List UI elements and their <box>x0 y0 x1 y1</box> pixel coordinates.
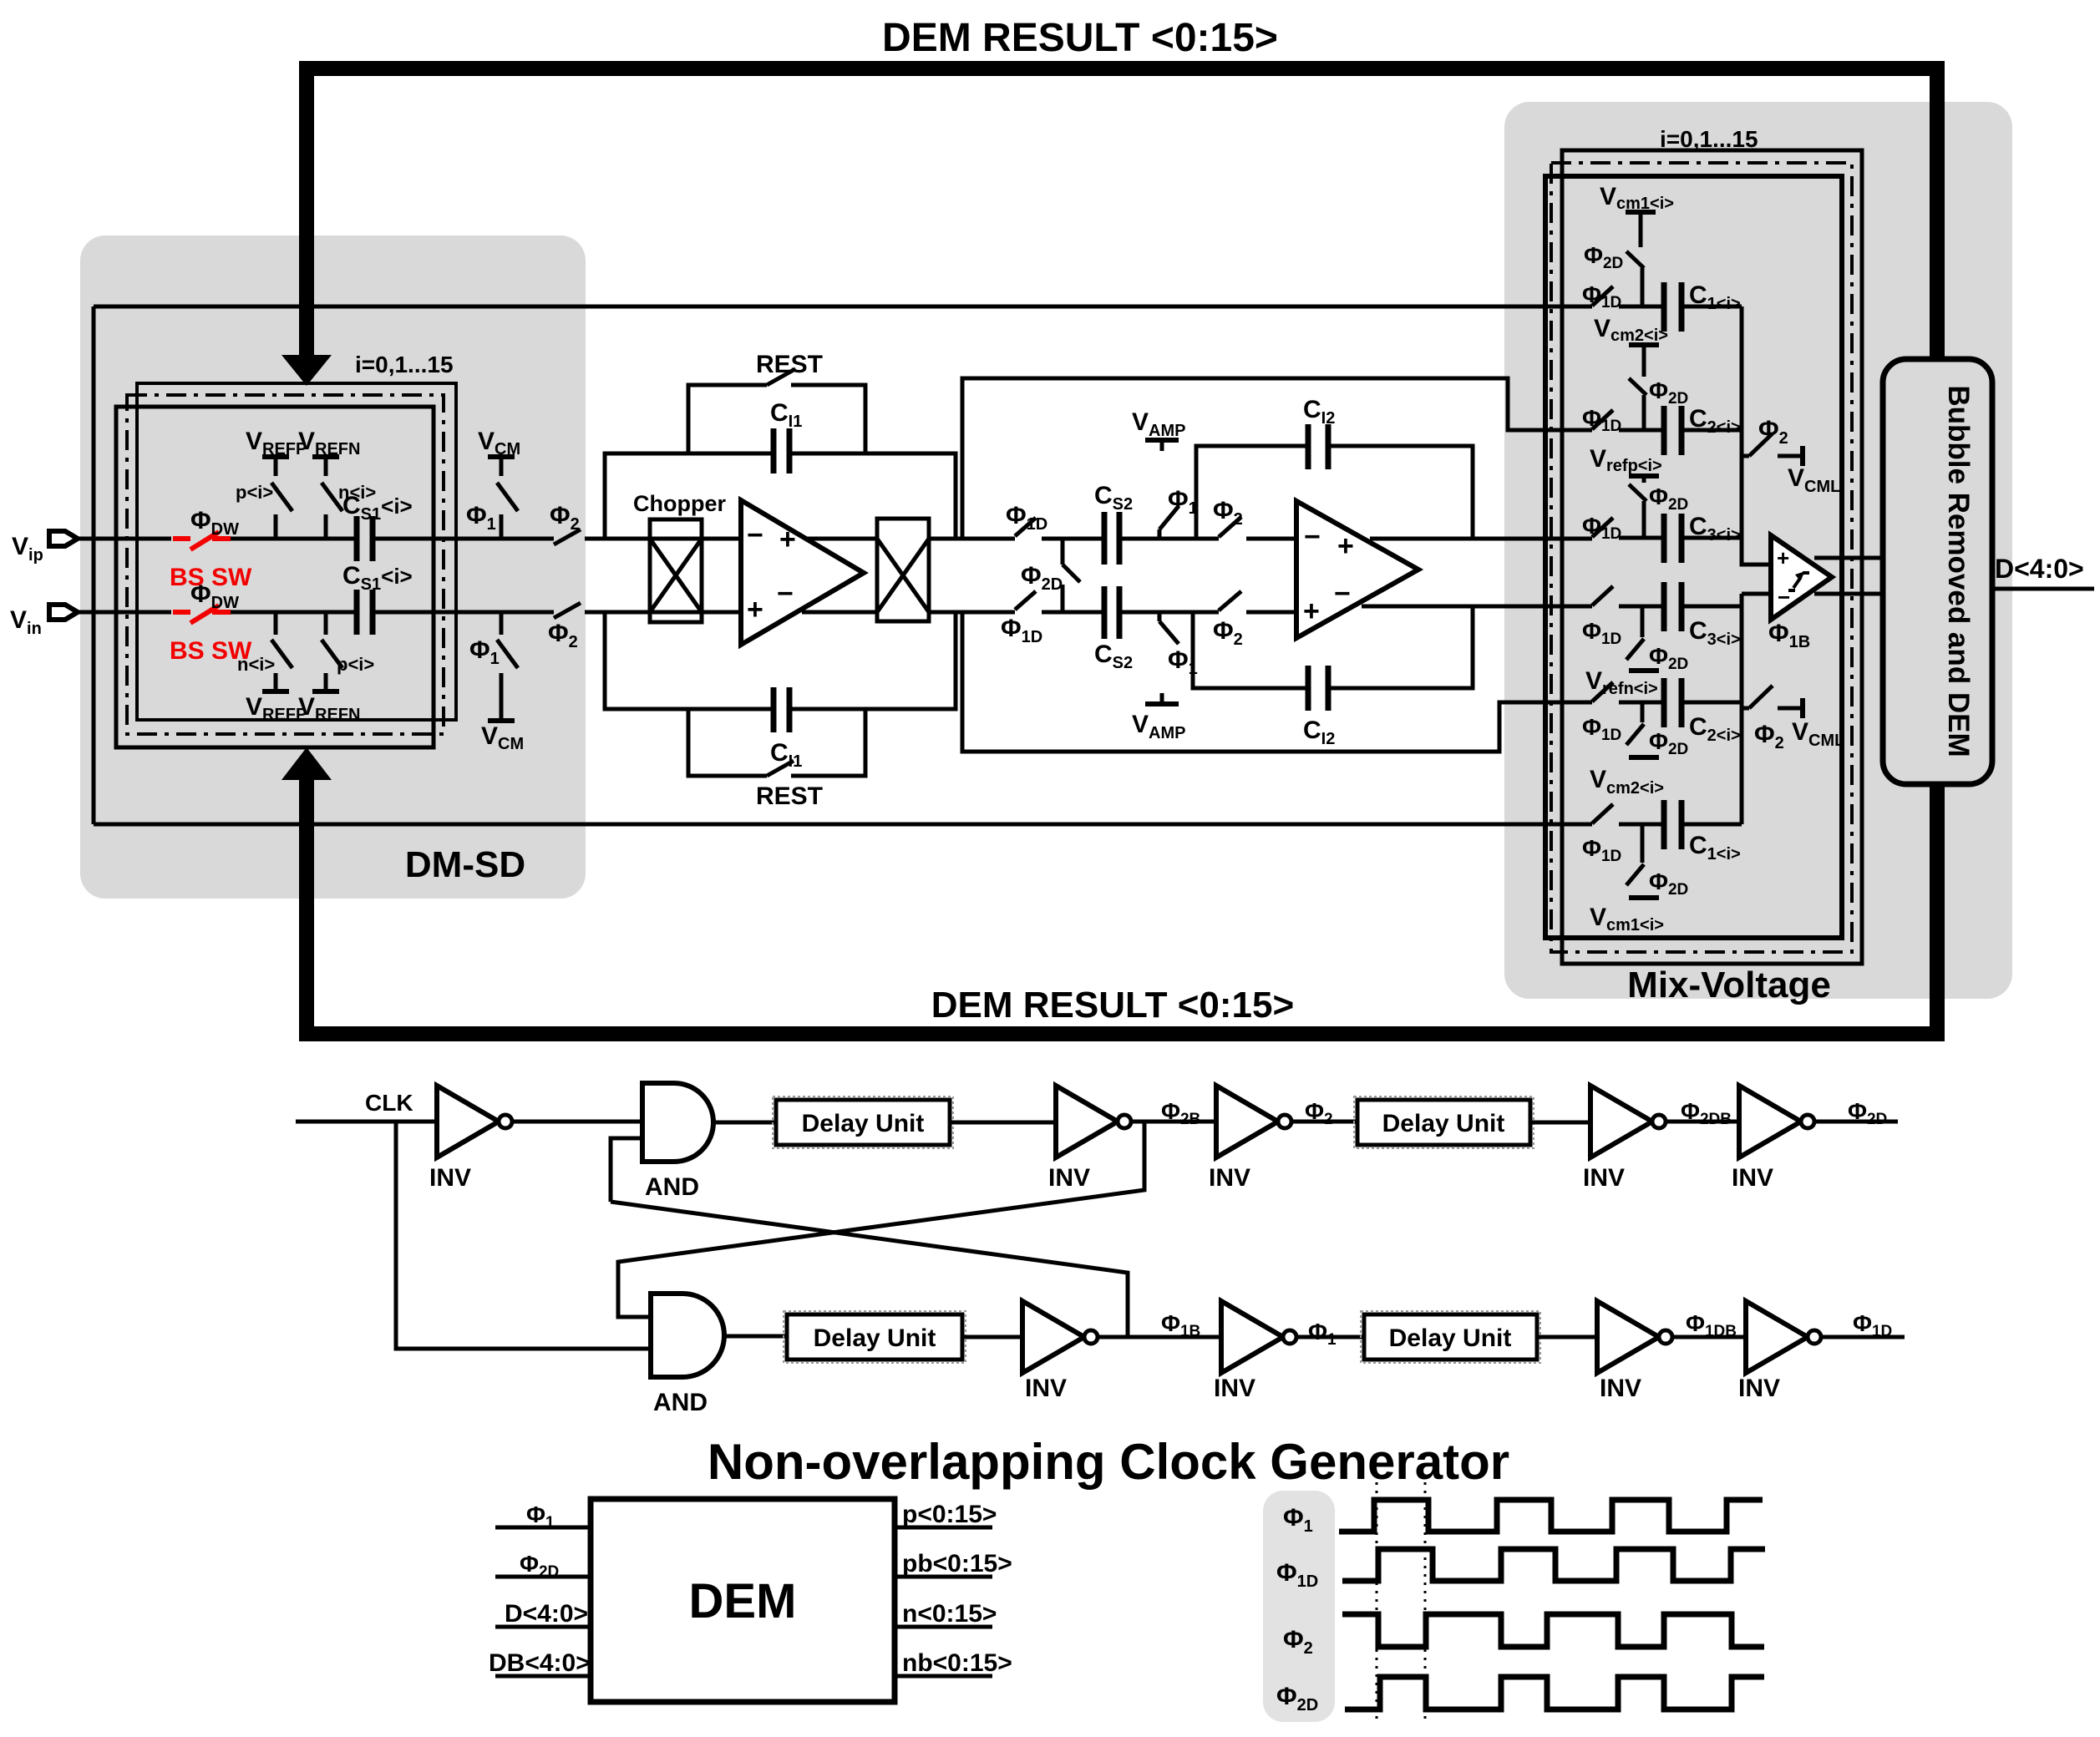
wire comparator minus stub <box>1742 592 1773 596</box>
switch p&lt;i&gt; (Vrefp to Vip rail) <box>271 457 292 539</box>
svg-text:INV: INV <box>1214 1375 1255 1402</box>
svg-text:nb<0:15>: nb<0:15> <box>902 1649 1012 1677</box>
AND gate AND1 <box>642 1083 713 1162</box>
switch Phi2 bottom on rail <box>554 603 650 618</box>
CI2 top loop <box>1196 446 1308 539</box>
DEM block box <box>591 1499 895 1702</box>
wire Phi1 node <box>1296 1335 1364 1339</box>
wire Phi2D out <box>1814 1120 1898 1124</box>
wire rail bottom to Phi1D <box>929 610 1015 615</box>
wire Phi1D out <box>1821 1335 1905 1339</box>
svg-text:INV: INV <box>429 1164 471 1192</box>
switch Phi2D Vrefn <box>1626 606 1644 660</box>
wire Delay3 to INVb0 <box>962 1335 1022 1339</box>
switch BS SW bottom (red) <box>173 605 231 623</box>
wire C1 row bottom to summing node <box>1682 823 1742 827</box>
switch Phi1 to VCM bottom <box>497 612 518 721</box>
svg-text:Delay Unit: Delay Unit <box>814 1324 936 1352</box>
capacitor C3 top <box>1664 514 1682 563</box>
DM-SD replicated slice inner solid box <box>116 407 434 747</box>
svg-text:INV: INV <box>1738 1375 1780 1402</box>
Bubble Removed and DEM block <box>1883 359 1992 784</box>
VCM T-bar bottom <box>488 718 515 723</box>
svg-text:Delay Unit: Delay Unit <box>802 1110 925 1137</box>
wire C3 row top after switch <box>1619 536 1661 540</box>
comparator output bottom <box>1814 592 1883 596</box>
svg-text:CLK: CLK <box>365 1090 413 1116</box>
pad Vip <box>49 531 78 546</box>
inverter INV1 <box>437 1086 512 1157</box>
svg-text:−: − <box>747 519 763 551</box>
wire CLK input <box>296 1120 437 1124</box>
wire rail top to Phi1D <box>929 537 1015 541</box>
wire DEM out p <box>895 1526 992 1530</box>
op-amp A1 <box>741 500 864 645</box>
svg-text:DEM: DEM <box>689 1574 797 1628</box>
switch REST top blade <box>767 370 794 385</box>
svg-text:+: + <box>1777 545 1789 570</box>
wire rail bottom after CS2 <box>1119 610 1219 615</box>
wire Phi1B node <box>1098 1335 1221 1339</box>
CI1 top feedback loop <box>605 453 774 539</box>
VAMP source bottom <box>1145 612 1179 704</box>
Vcm1 source T-bar bottom <box>1629 895 1659 900</box>
wire Phi2DB node <box>1666 1120 1739 1124</box>
svg-text:−: − <box>1304 521 1321 553</box>
delay unit 2 <box>1354 1096 1534 1148</box>
svg-text:INV: INV <box>1732 1164 1773 1192</box>
capacitor C1 bottom <box>1664 800 1682 849</box>
svg-text:+: + <box>779 524 796 555</box>
switch Phi2D row3 top <box>1629 484 1646 538</box>
svg-text:Bubble Removed and DEM: Bubble Removed and DEM <box>1942 385 1975 757</box>
wire C3 row bottom to summing node <box>1619 605 1661 609</box>
wire DEM in Phi2D <box>495 1575 591 1579</box>
delay unit 4 <box>1361 1311 1540 1363</box>
switch REST bottom blade <box>767 761 794 776</box>
inverter INV4 <box>1590 1086 1666 1157</box>
wire Vin rail mid <box>231 610 357 615</box>
wire DEM out nb <box>895 1674 992 1679</box>
svg-text:INV: INV <box>1209 1164 1250 1192</box>
wire amp1 out top <box>802 537 877 541</box>
svg-text:+: + <box>747 594 763 625</box>
waveform Phi1 <box>1339 1500 1763 1532</box>
wire D output <box>1992 587 2094 591</box>
wire rail bottom chopper region <box>650 610 741 615</box>
svg-text:AND: AND <box>645 1173 699 1201</box>
wire DEM in D <box>495 1625 591 1629</box>
Vcm1 source top <box>1626 212 1656 247</box>
svg-text:DM-SD: DM-SD <box>405 844 525 885</box>
wire AND2 to Delay3 <box>724 1334 787 1339</box>
svg-text:+: + <box>1337 530 1354 562</box>
wire Delay2 to INV4 <box>1530 1121 1590 1125</box>
capacitor C2 bottom <box>1664 678 1682 727</box>
inverter INV5 <box>1739 1086 1814 1157</box>
inverter INV2 <box>1056 1086 1131 1157</box>
svg-text:DEM RESULT <0:15>: DEM RESULT <0:15> <box>882 16 1278 60</box>
CI1 bottom feedback loop <box>605 612 774 709</box>
chopper 2 X <box>877 539 929 612</box>
CI2 bottom loop <box>1193 612 1308 688</box>
switch Phi2D Vcm2 bottom <box>1626 702 1644 745</box>
svg-text:Delay Unit: Delay Unit <box>1382 1110 1505 1137</box>
cross wire Phi1B to AND1 <box>611 1202 1128 1337</box>
switch Phi1D row C1 bottom <box>1592 804 1613 823</box>
REST top loop <box>688 385 767 453</box>
DM-SD gray block <box>80 235 586 899</box>
svg-text:i=0,1...15: i=0,1...15 <box>355 352 454 377</box>
Vrefn source T-bar top <box>312 454 339 459</box>
wire Vin rail left <box>78 610 171 615</box>
svg-text:−: − <box>1334 578 1351 610</box>
svg-text:p<0:15>: p<0:15> <box>902 1501 997 1528</box>
Vrefp source <box>1629 476 1659 483</box>
chopper 1 box <box>650 519 702 622</box>
wire DEM in Phi1 <box>495 1526 591 1530</box>
VCM T-bar top <box>488 454 515 459</box>
wire C2 row bottom to summing node <box>1682 701 1742 705</box>
switch Phi2 top on rail <box>554 529 650 544</box>
comparator output top <box>1814 556 1883 560</box>
wire Delay1 to INV2 <box>950 1121 1056 1125</box>
capacitor CI1 top <box>774 428 789 473</box>
switch Phi1 to VCM top <box>497 457 518 539</box>
switch n&lt;i&gt; bottom (Vin rail to Vrefp) <box>271 612 292 691</box>
op-amp A2 <box>1296 501 1418 638</box>
switch Phi2D Vcm1 bottom <box>1626 824 1644 885</box>
switch Phi1D row C2 top <box>1592 410 1613 429</box>
inverter INV3 <box>1216 1086 1291 1157</box>
wire C1 row top to summing node <box>1682 305 1742 309</box>
delay unit 1 <box>773 1096 953 1148</box>
timing dotted marker 1 <box>1376 1482 1378 1724</box>
DM-SD replicated slice outer solid box <box>137 383 456 720</box>
wire DEM in DB <box>495 1674 591 1679</box>
switch Phi2 to VCML top <box>1742 433 1803 466</box>
wire DEM out n <box>895 1625 992 1629</box>
capacitor CS2 bottom <box>1104 586 1119 639</box>
wire Delay4 to INVb2 <box>1537 1335 1597 1339</box>
capacitor CI1 bottom <box>774 687 789 732</box>
pad Vin <box>49 605 78 620</box>
svg-text:REST: REST <box>756 782 823 810</box>
chopper 1 X <box>650 539 702 612</box>
wire C2 row top to summing node <box>1682 428 1742 433</box>
Mix replicated slice outer solid box <box>1562 150 1862 964</box>
cross wire Phi2B to AND2 <box>618 1122 1144 1317</box>
Vrefp source T-bar bottom <box>262 689 289 694</box>
DM-SD replicated slice dash-dot box <box>127 395 444 734</box>
Mix-Voltage gray block <box>1504 102 2012 999</box>
svg-text:i=0,1...15: i=0,1...15 <box>1660 126 1758 152</box>
wire AND1 to Delay1 <box>713 1121 776 1125</box>
svg-text:Mix-Voltage: Mix-Voltage <box>1627 965 1831 1005</box>
thick DEM feedback bottom wire <box>307 778 1937 1034</box>
svg-text:DEM RESULT <0:15>: DEM RESULT <0:15> <box>931 985 1294 1025</box>
arrow into DM-SD top <box>282 355 332 386</box>
switch BS SW top (red) <box>173 532 231 549</box>
svg-text:Delay Unit: Delay Unit <box>1389 1324 1512 1352</box>
svg-text:REST: REST <box>756 351 823 378</box>
inverter INVb3 <box>1746 1301 1821 1373</box>
capacitor C3 bottom <box>1664 582 1682 631</box>
waveform Phi2D <box>1345 1677 1764 1709</box>
Vrefn source T-bar <box>1629 668 1659 673</box>
switch Phi1D bottom <box>1015 591 1036 610</box>
wire amp2 out bottom <box>1362 605 1592 609</box>
inverter INVb1 <box>1221 1301 1296 1373</box>
waveform Phi2 <box>1342 1614 1764 1647</box>
wire Phi1DB node <box>1672 1335 1746 1339</box>
Vcm2 source T-bar bottom <box>1629 755 1659 760</box>
wire DEM out pb <box>895 1575 992 1579</box>
svg-text:Chopper: Chopper <box>633 491 726 516</box>
wire to amp2 plus <box>1246 610 1296 615</box>
svg-text:pb<0:15>: pb<0:15> <box>902 1550 1012 1577</box>
summing vertical top <box>1742 306 1773 565</box>
Vrefp source T-bar top <box>262 454 289 459</box>
comparator schmitt symbol <box>1788 573 1809 590</box>
wire Vin rail right <box>373 610 554 615</box>
svg-text:−: − <box>1778 585 1790 610</box>
switch Phi1D row C3 top <box>1592 518 1613 537</box>
wire CLK branch down <box>396 1122 651 1349</box>
waveform Phi1D <box>1342 1549 1765 1581</box>
switch Phi2 stage2 top <box>1219 517 1241 537</box>
wire rail top after CS2 <box>1119 537 1219 541</box>
switch Phi2 stage2 bottom <box>1219 591 1241 610</box>
svg-text:DB<4:0>: DB<4:0> <box>489 1649 591 1677</box>
wire Phi2 node <box>1291 1120 1357 1124</box>
svg-text:AND: AND <box>653 1389 708 1416</box>
AND gate AND2 <box>651 1294 724 1377</box>
svg-text:n<i>: n<i> <box>237 654 275 675</box>
capacitor CI2 top <box>1308 424 1328 469</box>
capacitor CS2 top <box>1104 512 1119 565</box>
wire amp1 out bottom <box>802 610 877 615</box>
wire C1 row bottom after switch <box>1619 823 1661 827</box>
switch Phi2 to VCML bottom <box>1742 686 1803 718</box>
svg-text:INV: INV <box>1048 1164 1090 1192</box>
wire amp2 out top <box>1370 537 1592 541</box>
svg-text:INV: INV <box>1600 1375 1641 1402</box>
svg-text:−: − <box>777 578 794 610</box>
long top wire (Vip feed-forward to C1 row) <box>94 305 1592 309</box>
svg-text:Non-overlapping Clock Generato: Non-overlapping Clock Generator <box>708 1434 1509 1490</box>
switch Phi1D top <box>1015 518 1036 536</box>
VAMP source top <box>1145 440 1179 539</box>
wire rail top mid <box>1042 537 1104 541</box>
wire INV1 to AND1 <box>512 1120 642 1124</box>
Mix replicated slice inner solid box <box>1545 176 1842 938</box>
switch p&lt;i&gt; bottom (Vin rail to Vrefn) <box>322 612 342 691</box>
switch Phi1D row C2 bottom <box>1592 682 1613 701</box>
wire C2 row bottom after switch <box>1619 701 1661 705</box>
switch Phi1D row C3 bottom <box>1592 586 1613 605</box>
svg-text:D<4:0>: D<4:0> <box>1995 554 2084 584</box>
svg-text:INV: INV <box>1025 1375 1067 1402</box>
switch Phi1D row C1 top <box>1592 286 1613 306</box>
Vrefn source T-bar bottom <box>312 689 339 694</box>
stage2 frame top wire <box>962 378 1592 539</box>
wire rail bottom mid <box>1042 610 1104 615</box>
wire Vip rail mid <box>231 537 357 541</box>
inverter INVb2 <box>1597 1301 1672 1373</box>
switch Phi2D row1 top <box>1626 251 1644 306</box>
capacitor CS1 top <box>357 516 373 561</box>
left vertical connector <box>92 306 96 824</box>
switch Phi2D cross <box>1063 539 1080 612</box>
switch n&lt;i&gt; (Vrefn to Vip rail) <box>322 457 342 539</box>
capacitor C2 top <box>1664 406 1682 455</box>
capacitor CS1 bottom <box>357 590 373 635</box>
wire rail top chopper region <box>650 537 741 541</box>
chopper 2 box <box>877 519 929 621</box>
wire Vip rail left <box>78 537 171 541</box>
wire C3 row top to summing node <box>1682 536 1742 540</box>
comparator U3 <box>1771 535 1832 620</box>
svg-text:INV: INV <box>1583 1164 1625 1192</box>
wire C2 row top after switch <box>1619 428 1661 433</box>
svg-text:p<i>: p<i> <box>236 482 273 503</box>
summing vertical bottom <box>1740 594 1744 824</box>
Vcm2 source top <box>1629 345 1659 377</box>
stage2 frame bottom wire <box>962 612 1592 752</box>
timing label gray bar <box>1263 1491 1335 1722</box>
wire AND1 feedback input <box>611 1138 642 1202</box>
wire Phi2B node <box>1131 1120 1216 1124</box>
delay unit 3 <box>784 1311 966 1363</box>
svg-text:D<4:0>: D<4:0> <box>505 1600 588 1628</box>
inverter INVb0 <box>1022 1301 1098 1373</box>
thick DEM feedback top wire <box>307 68 1937 359</box>
REST bottom loop <box>688 709 767 776</box>
capacitor C1 top <box>1664 282 1682 332</box>
capacitor CI2 bottom <box>1308 666 1328 711</box>
switch Phi2D row2 top <box>1629 378 1646 430</box>
arrow into DM-SD bottom <box>282 747 332 780</box>
svg-text:p<i>: p<i> <box>337 654 374 675</box>
Mix replicated slice dash-dot box <box>1551 163 1852 952</box>
long bottom wire (Vin feed-forward to C1 row bottom) <box>94 823 1592 827</box>
timing dotted marker 2 <box>1424 1482 1427 1724</box>
svg-text:n<0:15>: n<0:15> <box>902 1600 997 1628</box>
svg-text:+: + <box>1303 595 1320 627</box>
wire C1 row top after switch <box>1619 305 1661 309</box>
wire to amp2 minus <box>1246 537 1296 541</box>
wire Vip rail right <box>373 537 554 541</box>
